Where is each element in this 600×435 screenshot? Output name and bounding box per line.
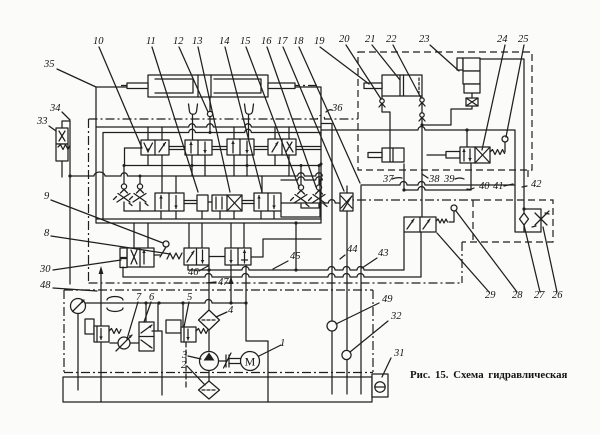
reducing valve 5	[166, 320, 208, 342]
wire: row3 feed stubs from box A	[134, 223, 244, 248]
pilot-operated valve 33	[56, 128, 70, 177]
wire: valve24 left port	[427, 154, 446, 156]
node ball (item 12)	[209, 97, 211, 133]
svg-text:23: 23	[419, 34, 430, 45]
main control block box (item 35)	[96, 87, 321, 223]
svg-text:24: 24	[497, 34, 508, 45]
wire: R2 links	[184, 200, 340, 204]
valve 46	[184, 248, 209, 265]
wire: left feed x74 from item 33	[62, 121, 70, 284]
valve R1a (item 10)	[141, 140, 169, 155]
node	[402, 188, 405, 191]
svg-text:16: 16	[261, 36, 272, 47]
wire: drain with up arrow x101	[99, 266, 104, 327]
valve R1b (item 11)	[185, 140, 212, 155]
wire: inner bus mid	[70, 172, 322, 176]
wire: gauge drain	[77, 314, 79, 391]
svg-text:11: 11	[146, 36, 156, 47]
ball check a	[379, 99, 385, 107]
svg-text:43: 43	[378, 248, 389, 259]
node on line1	[207, 268, 210, 271]
svg-text:33: 33	[36, 116, 48, 127]
wire: row1 bottom stubs	[124, 148, 321, 193]
restrictor plate under item 23	[466, 98, 478, 106]
ball check c	[419, 113, 425, 121]
wire: right chain	[421, 96, 423, 217]
damper throttle (item 7)	[110, 335, 139, 351]
wire: inner bus bottom	[96, 218, 321, 220]
svg-text:17: 17	[277, 36, 288, 47]
thermometer 32	[342, 350, 351, 359]
throttle box on line 44	[321, 124, 361, 377]
wire: U1 down to valve row1	[192, 115, 194, 140]
lock cylinder (items 19-22)	[364, 75, 422, 96]
relief valve 7 assembly	[85, 319, 121, 342]
solenoid valve 24	[446, 147, 505, 163]
enclosure frame: bottom power-unit dashed box	[64, 290, 373, 373]
wire: valve6 ports	[146, 303, 162, 395]
wire: U2 down to valve row1	[248, 115, 250, 139]
wire: return riser x246	[246, 265, 268, 402]
svg-text:34: 34	[49, 103, 61, 114]
throttle 26	[524, 209, 549, 232]
svg-text:6: 6	[149, 292, 155, 303]
svg-text:1: 1	[280, 338, 285, 349]
valve R2b with crossed section	[212, 195, 242, 211]
svg-text:9: 9	[44, 191, 50, 202]
wire: line2 work line	[123, 232, 421, 277]
wire: pump pressure bus y303	[85, 300, 246, 304]
svg-text:4: 4	[228, 305, 234, 316]
pressure gauge	[71, 299, 86, 314]
wire: row1 top stubs	[148, 127, 289, 140]
node	[123, 164, 126, 167]
svg-text:Рис. 15. Схема гидравлическая: Рис. 15. Схема гидравлическая	[410, 369, 568, 381]
breather	[107, 297, 123, 312]
wire: valve5 ports	[182, 303, 184, 327]
node on box A bottom	[294, 221, 297, 224]
valve R2a (item 11/13)	[155, 193, 184, 211]
svg-text:7: 7	[136, 292, 142, 303]
enclosure frame: top-right dashed box (section 36)	[358, 52, 532, 170]
node	[420, 123, 423, 126]
svg-text:35: 35	[43, 59, 55, 70]
wire: filter4 to pump	[208, 330, 210, 352]
svg-text:12: 12	[173, 36, 184, 47]
adjustable throttle (item 9 zone, left pair)	[114, 184, 149, 206]
wire: R1a-R1b link	[169, 147, 185, 150]
spring of valve 30	[167, 253, 182, 259]
wire: relief7 ports	[100, 342, 102, 402]
wire: valve24 drain	[470, 163, 472, 190]
wire: item23 to check block	[480, 59, 524, 209]
suction filter 2	[199, 371, 220, 400]
svg-text:8: 8	[44, 228, 50, 239]
svg-text:45: 45	[290, 251, 301, 262]
svg-text:25: 25	[518, 34, 529, 45]
valve R1d (item 14)	[268, 139, 296, 155]
wire: link bus to right column	[251, 239, 321, 257]
svg-text:14: 14	[219, 36, 230, 47]
svg-text:46: 46	[188, 267, 199, 278]
valve R1c (item 13)	[227, 139, 254, 155]
svg-text:21: 21	[365, 34, 376, 45]
svg-text:49: 49	[382, 294, 393, 305]
wire: line y185	[361, 182, 515, 186]
wire: loop to pilot block 23	[422, 105, 472, 125]
valve R2 small square	[197, 195, 208, 211]
svg-text:15: 15	[240, 36, 251, 47]
coupling	[219, 353, 242, 368]
hose loop U1 under cylinder	[189, 104, 198, 114]
valve 6 (two-position)	[139, 322, 154, 351]
valve 47	[225, 248, 251, 265]
node	[465, 128, 468, 131]
svg-text:10: 10	[93, 36, 104, 47]
svg-text:30: 30	[39, 264, 51, 275]
svg-text:2: 2	[181, 360, 187, 371]
directional valve 29	[404, 217, 448, 232]
component 23 (pneumatic cylinder block)	[457, 58, 480, 98]
wire: left chain to cyl37	[382, 96, 390, 148]
svg-text:36: 36	[331, 103, 343, 114]
node	[144, 301, 147, 304]
adjustable throttle pair right (items 15,16)	[291, 185, 328, 207]
svg-text:42: 42	[531, 179, 542, 190]
svg-text:13: 13	[192, 36, 203, 47]
tank	[63, 377, 372, 402]
wire: supply branch with up arrow	[230, 265, 232, 303]
enclosure frame: machine boundary dash-dot box (inner assembly)	[89, 115, 474, 283]
pump (items 2,3)	[200, 352, 219, 371]
electric motor (item 1)	[241, 352, 260, 371]
pilot valve 30	[127, 248, 160, 267]
pilot ball 28	[449, 205, 457, 222]
svg-text:20: 20	[339, 34, 350, 45]
ball check b	[419, 98, 425, 106]
hand pump 31	[372, 374, 388, 397]
svg-text:40: 40	[479, 181, 490, 192]
svg-text:26: 26	[552, 290, 563, 301]
roller-lever with ball (items 8,9)	[160, 241, 169, 257]
wire: filter riser x209	[208, 265, 210, 310]
pilot ball 25	[502, 136, 508, 152]
svg-text:M: M	[245, 355, 256, 369]
svg-text:48: 48	[40, 280, 51, 291]
node	[522, 207, 525, 210]
wire: inner bus top	[96, 124, 321, 127]
wire: row2 bottom stubs	[161, 211, 274, 219]
svg-text:39: 39	[443, 174, 455, 185]
svg-text:29: 29	[485, 290, 496, 301]
telescopic cylinder (items 10-18 zone)	[121, 75, 317, 97]
check valve 27	[520, 209, 529, 232]
wire: line y190	[404, 164, 471, 190]
hose loop U2 under cylinder	[245, 104, 254, 114]
filter 4	[199, 310, 220, 330]
svg-text:31: 31	[393, 348, 405, 359]
node	[300, 164, 303, 167]
svg-text:32: 32	[390, 311, 402, 322]
svg-text:47: 47	[218, 277, 229, 288]
svg-text:41: 41	[493, 181, 504, 192]
svg-text:5: 5	[187, 292, 192, 303]
node	[68, 174, 71, 177]
small cylinder 37	[368, 148, 404, 162]
link valve46-47	[209, 256, 225, 258]
enclosure frame: mid-right dashed box (items 26-27)	[462, 170, 553, 242]
wire: left throttles verticals	[124, 165, 155, 211]
wire: right throttle stubs	[281, 166, 320, 218]
wire: pilot supply y131	[321, 127, 524, 232]
svg-text:44: 44	[347, 244, 358, 255]
svg-text:28: 28	[512, 290, 523, 301]
wire: R1b-R1c link	[212, 147, 227, 150]
wire: line1 work line (item 45)	[188, 232, 404, 270]
wire: tank entry feet	[332, 376, 361, 394]
svg-text:22: 22	[386, 34, 397, 45]
svg-text:19: 19	[314, 36, 325, 47]
valve R2c (item 14)	[254, 193, 281, 211]
wire: R1c-R1d link	[254, 147, 268, 150]
level gauge 49	[327, 321, 337, 331]
svg-text:38: 38	[428, 174, 440, 185]
wire: node drop to line1	[295, 223, 297, 270]
wire: valve30 left ports	[120, 248, 127, 258]
wire: valve24 pilot riser	[466, 130, 468, 147]
svg-text:18: 18	[293, 36, 304, 47]
